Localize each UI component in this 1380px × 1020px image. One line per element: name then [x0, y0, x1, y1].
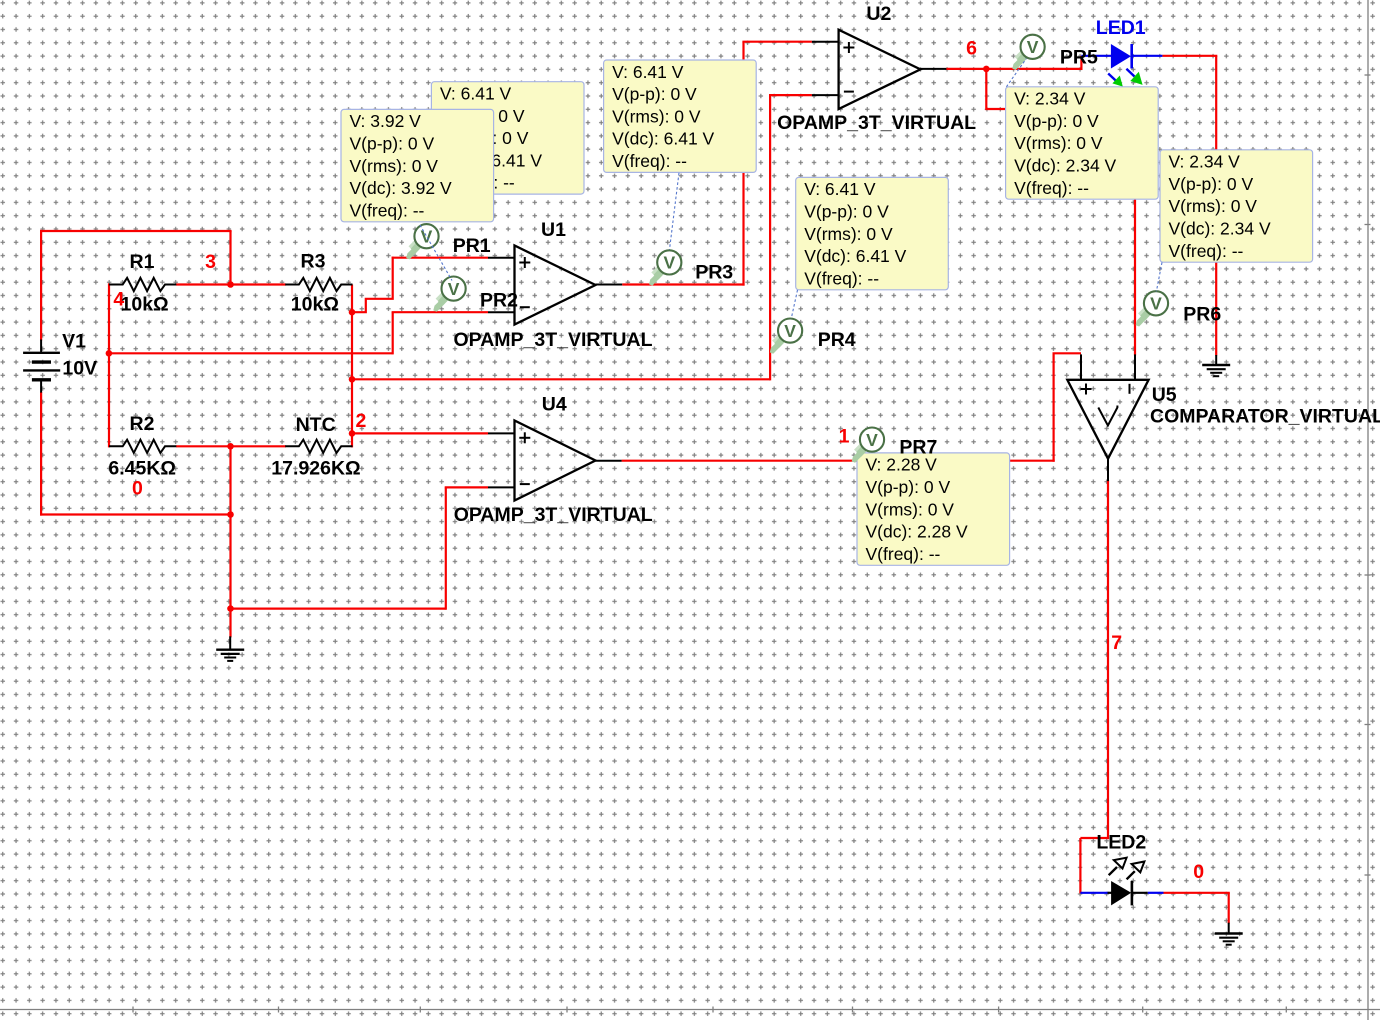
svg-text:V(p-p): 0 V: V(p-p): 0 V [612, 84, 697, 104]
svg-text:COMPARATOR_VIRTUAL: COMPARATOR_VIRTUAL [1150, 405, 1380, 427]
svg-text:V: V [1150, 294, 1162, 314]
resistor R3 [285, 278, 352, 291]
svg-text:7: 7 [1111, 632, 1122, 654]
junction ground net [227, 605, 234, 612]
wire LED1 cathode [1162, 55, 1217, 57]
probe PR7 [852, 428, 884, 463]
svg-text:V(freq): --: V(freq): -- [1169, 241, 1244, 261]
wire U5 output node7 [1107, 480, 1109, 839]
wire node3 vertical [229, 231, 231, 286]
pin U4 out [596, 460, 622, 462]
wire U5 noninverting input [1053, 352, 1082, 354]
svg-text:U5: U5 [1152, 384, 1177, 406]
resistor R1 [109, 278, 176, 291]
ground bottom LED2 [1215, 923, 1243, 945]
svg-text:U4: U4 [542, 394, 567, 416]
svg-text:V(dc): 2.28 V: V(dc): 2.28 V [866, 522, 968, 542]
LED1 diode (lit, blue) [1081, 44, 1162, 69]
pin U1 out [596, 284, 623, 286]
probe PR4 [770, 319, 802, 354]
comparator U5 [1067, 380, 1148, 459]
svg-text:V(p-p): 0 V: V(p-p): 0 V [350, 134, 435, 154]
svg-text:PR7: PR7 [899, 437, 937, 459]
wire U2 noninverting input [742, 41, 812, 43]
junction battery bottom [227, 511, 234, 518]
leader box to PR5 [1006, 59, 1026, 87]
probe PR6 [1136, 291, 1168, 326]
wire U1 output PR3 [622, 283, 744, 285]
wire battery+ vertical [40, 230, 42, 341]
pin U4 + [488, 432, 515, 434]
probe PR2 [433, 277, 465, 312]
probe readout box PR2 6.41V [431, 82, 584, 194]
svg-text:V: V [784, 321, 796, 341]
svg-text:V(rms): 0 V: V(rms): 0 V [804, 224, 893, 244]
probe readout box PR4 6.41V [796, 177, 949, 289]
svg-text:PR3: PR3 [695, 262, 733, 284]
wire U2 feedback vertical [769, 94, 771, 380]
wire LED1 to ground vertical [1215, 56, 1217, 356]
svg-text:V(p-p): 0 V: V(p-p): 0 V [1169, 174, 1254, 194]
svg-text:V: V [448, 279, 460, 299]
svg-text:V(dc): 3.92 V: V(dc): 3.92 V [350, 178, 452, 198]
svg-text:OPAMP_3T_VIRTUAL: OPAMP_3T_VIRTUAL [777, 112, 976, 134]
wire node4 riser [392, 312, 394, 354]
wire feedback horizontal [352, 378, 770, 380]
svg-text:V: V [1027, 37, 1039, 57]
wire U4 output node1 [622, 460, 1055, 462]
worksheet border right [1367, 0, 1369, 1020]
svg-text:10V: 10V [62, 357, 97, 379]
svg-text:LED1: LED1 [1096, 17, 1146, 39]
junction node4 [106, 350, 113, 357]
wire battery+ top [40, 230, 232, 232]
svg-text:4: 4 [113, 288, 124, 310]
wire U2 output node6 [946, 68, 1082, 70]
svg-text:10kΩ: 10kΩ [121, 294, 169, 316]
wire node2 to U4+ [352, 432, 488, 434]
wire battery- bottom [40, 513, 231, 515]
wire PR3 vertical to U2+ [742, 42, 744, 286]
svg-text:10kΩ: 10kΩ [291, 294, 339, 316]
svg-text:V1: V1 [62, 331, 86, 353]
junction node2 upper [349, 309, 356, 316]
wire bottom to U4- [231, 607, 446, 609]
svg-text:V(dc): 2.34 V: V(dc): 2.34 V [1014, 156, 1116, 176]
probe readout box PR1 3.92V [341, 109, 494, 221]
svg-text:2: 2 [356, 410, 367, 432]
pin U5 - [1134, 354, 1136, 379]
svg-text:V(rms): 0 V: V(rms): 0 V [1014, 133, 1103, 153]
op-amp U2 [839, 30, 921, 109]
svg-text:0: 0 [132, 477, 143, 499]
svg-text:V(p-p): 0 V: V(p-p): 0 V [1014, 111, 1099, 131]
leader box to PR6 [1156, 262, 1162, 291]
probe readout box PR3 6.41V [604, 60, 757, 172]
wire node6 to U5 inverting [1134, 197, 1136, 356]
wire U1 inverting input [392, 311, 488, 313]
svg-text:17.926KΩ: 17.926KΩ [271, 458, 360, 480]
svg-text:V: V [866, 430, 878, 450]
pin U5 + [1080, 354, 1082, 379]
pin U2 out [920, 68, 946, 70]
junction node3 R1-R3 [227, 281, 234, 288]
junction node2 NTC [349, 430, 356, 437]
svg-text:NTC: NTC [296, 414, 336, 436]
wire node4 horizontal [109, 352, 393, 354]
svg-text:U2: U2 [866, 3, 891, 25]
probe PR3 [649, 250, 681, 285]
probe readout box PR5 2.34V [1006, 87, 1159, 199]
wire LED2 anode riser [1079, 838, 1081, 893]
svg-text:V(freq): --: V(freq): -- [866, 544, 941, 564]
svg-text:V(dc): 6.41 V: V(dc): 6.41 V [804, 246, 906, 266]
wire node7 horizontal [1080, 837, 1109, 839]
pin U1 + [488, 257, 515, 259]
LED2 diode (off) [1080, 881, 1163, 905]
op-amp U1 [515, 246, 596, 325]
svg-text:V: V [663, 253, 675, 273]
ground left [216, 636, 244, 661]
op-amp U4 [515, 421, 596, 501]
svg-text:R3: R3 [301, 251, 326, 273]
pin U5 out [1107, 459, 1109, 481]
svg-text:PR2: PR2 [480, 290, 518, 312]
resistor NTC thermistor [285, 440, 352, 453]
svg-text:LED2: LED2 [1096, 831, 1146, 853]
wire U4- vertical [445, 487, 447, 609]
wire node1 vertical to U5+ [1052, 353, 1054, 462]
svg-text:U1: U1 [541, 219, 566, 241]
probe PR1 [406, 224, 438, 259]
svg-text:V(rms): 0 V: V(rms): 0 V [1169, 196, 1258, 216]
LED2 emission arrows (outline) [1109, 858, 1145, 880]
svg-text:V: 2.34 V: V: 2.34 V [1014, 89, 1086, 109]
wire R1-R3 node3 [176, 283, 286, 285]
wire U2 inverting input [769, 94, 812, 96]
svg-text:0: 0 [1193, 861, 1204, 883]
wire battery- vertical [40, 392, 42, 516]
svg-text:OPAMP_3T_VIRTUAL: OPAMP_3T_VIRTUAL [454, 504, 653, 526]
wire node4 vertical R1-R2 [108, 283, 110, 447]
svg-text:V(rms): 0 V: V(rms): 0 V [350, 156, 439, 176]
pin U2 + [812, 41, 839, 43]
svg-text:PR5: PR5 [1060, 46, 1098, 68]
wire to ground left [229, 609, 231, 638]
svg-text:6.45KΩ: 6.45KΩ [108, 458, 176, 480]
svg-text:OPAMP_3T_VIRTUAL: OPAMP_3T_VIRTUAL [454, 329, 653, 351]
pin U2 - [812, 94, 839, 96]
wire U4 inverting input [445, 486, 488, 488]
svg-text:V(freq): --: V(freq): -- [804, 268, 879, 288]
ground right LED1 [1202, 355, 1230, 376]
svg-text:V: 6.41 V: V: 6.41 V [804, 179, 876, 199]
svg-text:PR4: PR4 [818, 329, 856, 351]
probe PR5 [1012, 35, 1044, 70]
resistor R2 [109, 440, 176, 453]
svg-text:PR6: PR6 [1183, 304, 1221, 326]
wire R2 right vertical [229, 446, 231, 609]
svg-text:V: 6.41 V: V: 6.41 V [440, 84, 512, 104]
svg-text:V(p-p): 0 V: V(p-p): 0 V [804, 202, 889, 222]
svg-text:V(dc): 6.41 V: V(dc): 6.41 V [612, 129, 714, 149]
svg-text:PR1: PR1 [453, 235, 491, 257]
LED1 emission arrows (green) [1108, 69, 1142, 87]
svg-text:V(freq): --: V(freq): -- [350, 200, 425, 220]
junction feedback [349, 376, 356, 383]
pin U4 - [488, 486, 515, 488]
wire LED2 cathode [1164, 892, 1230, 894]
wire node2 vertical R3-NTC [351, 285, 353, 448]
worksheet border bottom [0, 1009, 1380, 1011]
svg-text:V(freq): --: V(freq): -- [1014, 178, 1089, 198]
junction node6 [983, 66, 990, 73]
leader box to PR4 [791, 290, 797, 318]
svg-text:V: 3.92 V: V: 3.92 V [350, 111, 422, 131]
svg-text:V(p-p): 0 V: V(p-p): 0 V [866, 477, 951, 497]
wire R2-NTC node [176, 445, 286, 447]
probe readout box PR6 2.34V [1160, 150, 1313, 262]
svg-text:3: 3 [205, 251, 216, 273]
wire node6 jog to U5 [986, 69, 1006, 109]
battery V1 [23, 340, 60, 393]
svg-text:V: 6.41 V: V: 6.41 V [612, 62, 684, 82]
probe readout box PR7 2.28V [857, 453, 1010, 565]
leader box to PR3 [670, 173, 680, 250]
svg-text:V: 2.34 V: V: 2.34 V [1169, 152, 1241, 172]
svg-text:V(rms): 0 V: V(rms): 0 V [866, 499, 955, 519]
wire LED2 to ground [1228, 893, 1230, 924]
svg-text:V(rms): 0 V: V(rms): 0 V [612, 106, 701, 126]
pin U1 - [488, 311, 515, 313]
svg-text:6: 6 [966, 38, 977, 60]
wire node2 jog to U1+ [352, 257, 393, 313]
leader box to PR2 [420, 225, 452, 281]
svg-text:R2: R2 [130, 413, 155, 435]
svg-text:V(dc): 2.34 V: V(dc): 2.34 V [1169, 219, 1271, 239]
wire LED1 anode riser [1080, 56, 1082, 70]
svg-text:1: 1 [839, 425, 850, 447]
svg-text:R1: R1 [130, 251, 155, 273]
svg-text:V(freq): --: V(freq): -- [612, 151, 687, 171]
wire U1 noninverting input [392, 257, 488, 259]
junction R2 output [227, 443, 234, 450]
